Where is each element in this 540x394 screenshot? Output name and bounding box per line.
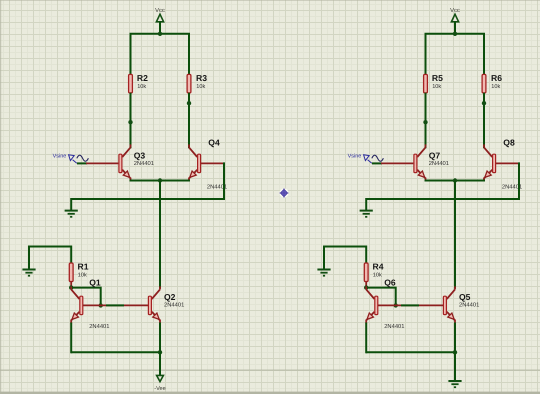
svg-text:Vsine: Vsine <box>348 153 362 159</box>
junction bottom rail <box>453 350 457 354</box>
wire base rail green <box>106 304 124 306</box>
lead R4 bottom <box>365 282 367 287</box>
transistor Q8 <box>484 144 496 181</box>
junction R3 branch <box>187 101 191 105</box>
svg-text:Q1: Q1 <box>89 278 101 288</box>
svg-text:Q3: Q3 <box>134 150 146 160</box>
wire diode connect <box>71 288 101 306</box>
resistor R5 body <box>424 74 428 93</box>
svg-text:R2: R2 <box>137 73 148 83</box>
svg-text:2N4401: 2N4401 <box>134 160 154 167</box>
svg-text:Vsine: Vsine <box>53 153 67 159</box>
svg-text:10k: 10k <box>491 83 500 90</box>
svg-text:10k: 10k <box>78 272 87 279</box>
resistor R4 body <box>364 263 368 282</box>
junction Vcc rail <box>158 32 162 36</box>
svg-text:R3: R3 <box>196 73 207 83</box>
wire base rail <box>83 304 148 306</box>
wire Vcc rail <box>426 34 485 75</box>
wire ground stub <box>365 198 367 211</box>
ground (input return) <box>65 210 78 212</box>
wire Vcc rail <box>131 34 190 75</box>
wire bias ground <box>324 247 366 270</box>
svg-text:Q6: Q6 <box>384 278 396 288</box>
resistor R3 body <box>187 74 191 93</box>
wire bottom rail <box>366 351 455 353</box>
wire diode connect <box>366 288 396 306</box>
junction R5 branch <box>423 120 427 124</box>
svg-text:Vcc: Vcc <box>450 8 460 14</box>
junction bottom rail <box>158 350 162 354</box>
transistor Q3 <box>119 144 131 181</box>
base lead Q8 <box>495 162 519 164</box>
power flag -Vee <box>157 375 164 381</box>
source VSINE symbol <box>69 155 75 161</box>
wire emitter rail <box>130 180 191 182</box>
wire source to base <box>77 162 87 164</box>
svg-text:10k: 10k <box>432 83 441 90</box>
wire Q2 emitter down <box>159 323 161 354</box>
junction base rail <box>99 303 103 307</box>
transistor Q6 <box>366 286 378 323</box>
screen left edge <box>0 0 1 394</box>
lead R1 bottom <box>70 282 72 287</box>
wire R5 to Q7 collector <box>425 93 427 149</box>
svg-text:Q5: Q5 <box>459 292 471 302</box>
wire Q6 collector <box>365 287 367 290</box>
resistor R6 body <box>482 74 486 93</box>
svg-text:Q4: Q4 <box>208 137 220 147</box>
source VSINE symbol <box>364 155 370 161</box>
resistor R2 body <box>129 74 133 93</box>
ground (input return) <box>360 210 373 212</box>
wire R3 to Q4 collector <box>188 93 190 149</box>
svg-text:2N4401: 2N4401 <box>164 301 184 308</box>
svg-text:10k: 10k <box>137 83 146 90</box>
wire Q6 emitter down <box>365 323 367 354</box>
svg-text:2N4401: 2N4401 <box>429 160 449 167</box>
ground (bias) <box>22 269 35 271</box>
svg-text:10k: 10k <box>373 272 382 279</box>
svg-text:2N4401: 2N4401 <box>89 323 109 330</box>
svg-text:R4: R4 <box>373 262 384 272</box>
sheet origin marker <box>279 188 288 197</box>
svg-text:2N4401: 2N4401 <box>459 301 479 308</box>
junction Vcc rail <box>453 32 457 36</box>
svg-text:Q2: Q2 <box>164 292 176 302</box>
wire emitter rail <box>425 180 486 182</box>
wire Q1 emitter down <box>70 323 72 354</box>
junction R6 branch <box>482 101 486 105</box>
junction tail <box>453 178 457 182</box>
wire to ground <box>454 352 456 381</box>
base lead Q4 <box>200 162 224 164</box>
transistor Q4 <box>189 144 201 181</box>
screen bottom edge <box>0 392 540 394</box>
svg-text:R5: R5 <box>432 73 443 83</box>
base lead Q7 <box>381 162 413 164</box>
transistor Q2 <box>148 286 160 323</box>
screen top edge <box>0 0 540 1</box>
svg-text:-Vee: -Vee <box>154 386 166 392</box>
transistor Q7 <box>414 144 426 181</box>
wire Q1 collector <box>70 287 72 290</box>
wire R2 to Q3 collector <box>130 93 132 149</box>
wire bottom rail <box>71 351 160 353</box>
ground (bias) <box>317 269 330 271</box>
wire R6 to Q8 collector <box>483 93 485 149</box>
power flag Vcc <box>156 14 163 22</box>
wire base rail green <box>401 304 419 306</box>
wire bias ground <box>29 247 71 270</box>
wire tail <box>159 181 161 289</box>
junction tail <box>158 178 162 182</box>
transistor Q5 <box>443 286 455 323</box>
junction R2 branch <box>128 120 132 124</box>
resistor R1 body <box>69 263 73 282</box>
wire ground stub <box>70 198 72 211</box>
svg-text:Q7: Q7 <box>429 150 441 160</box>
wire Q5 emitter down <box>454 323 456 354</box>
svg-text:Vcc: Vcc <box>155 8 165 14</box>
wire to -Vee <box>159 352 161 375</box>
svg-text:10k: 10k <box>196 83 205 90</box>
wire tail <box>454 181 456 289</box>
junction base rail <box>394 303 398 307</box>
svg-text:R1: R1 <box>78 262 89 272</box>
svg-text:Q8: Q8 <box>503 137 515 147</box>
ground (tail) <box>448 380 461 382</box>
svg-text:2N4401: 2N4401 <box>384 323 404 330</box>
base lead Q3 <box>86 162 118 164</box>
junction R4-Q6 <box>364 285 368 289</box>
power flag Vcc <box>451 14 458 22</box>
wire base rail <box>378 304 443 306</box>
svg-text:R6: R6 <box>491 73 502 83</box>
wire base return <box>71 162 224 199</box>
junction R1-Q1 <box>69 285 73 289</box>
dark grid line bottom <box>0 370 540 371</box>
wire base return <box>366 162 519 199</box>
wire source to base <box>372 162 382 164</box>
transistor Q1 <box>71 286 83 323</box>
